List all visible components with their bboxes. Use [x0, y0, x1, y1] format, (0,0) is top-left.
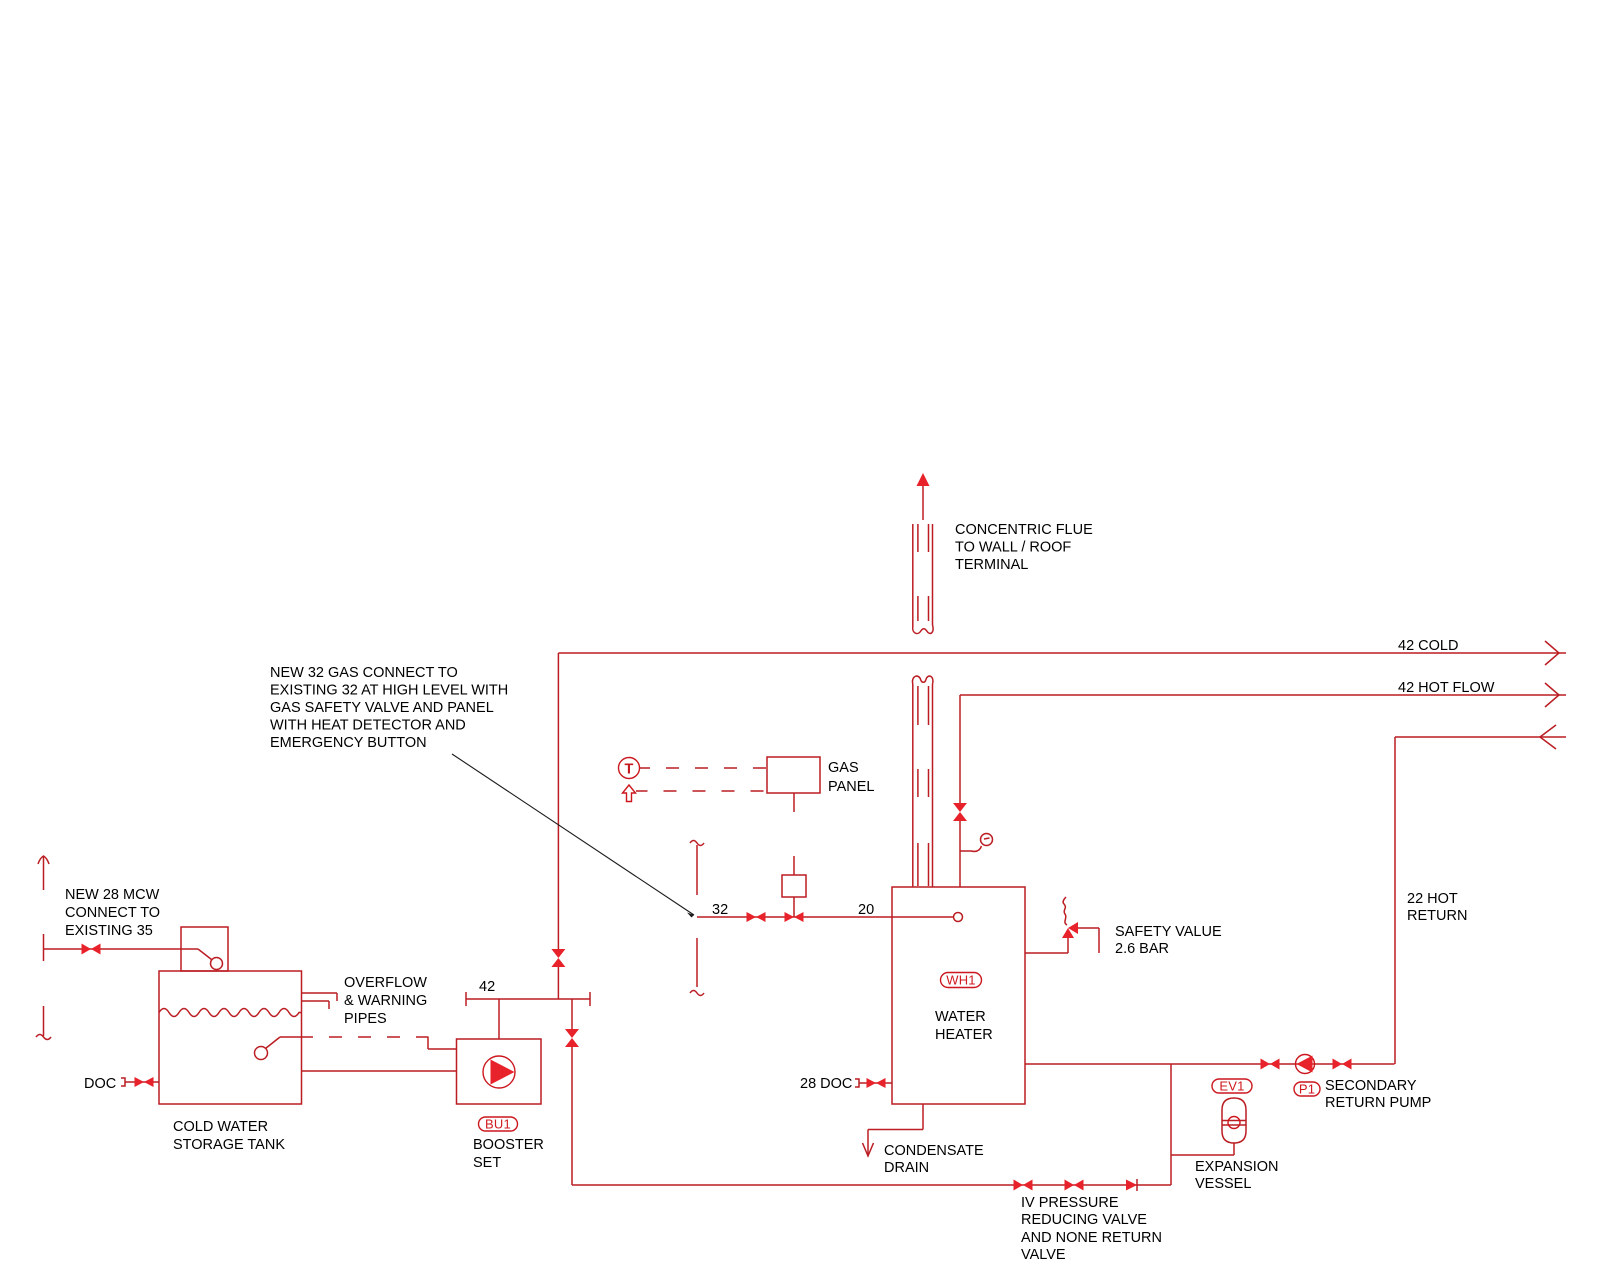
svg-text:32: 32	[712, 902, 728, 918]
svg-text:20: 20	[858, 902, 874, 918]
svg-text:T: T	[624, 762, 633, 778]
svg-text:CONDENSATE: CONDENSATE	[884, 1143, 984, 1159]
svg-text:IV PRESSURE: IV PRESSURE	[1021, 1195, 1119, 1211]
svg-text:HEATER: HEATER	[935, 1027, 993, 1043]
svg-text:SAFETY VALUE: SAFETY VALUE	[1115, 924, 1222, 940]
svg-text:42: 42	[479, 979, 495, 995]
svg-text:TO WALL / ROOF: TO WALL / ROOF	[955, 540, 1071, 556]
svg-text:RETURN: RETURN	[1407, 908, 1467, 924]
svg-text:42 HOT FLOW: 42 HOT FLOW	[1398, 680, 1495, 696]
svg-text:RETURN PUMP: RETURN PUMP	[1325, 1095, 1431, 1111]
svg-text:GAS: GAS	[828, 760, 859, 776]
svg-text:COLD WATER: COLD WATER	[173, 1119, 268, 1135]
svg-text:DOC: DOC	[84, 1076, 116, 1092]
svg-text:EXISTING 32 AT HIGH LEVEL WITH: EXISTING 32 AT HIGH LEVEL WITH	[270, 683, 508, 699]
svg-text:42 COLD: 42 COLD	[1398, 638, 1458, 654]
svg-text:EV1: EV1	[1219, 1079, 1244, 1094]
svg-text:VALVE: VALVE	[1021, 1247, 1066, 1263]
svg-text:& WARNING: & WARNING	[344, 993, 427, 1009]
svg-text:OVERFLOW: OVERFLOW	[344, 975, 427, 991]
svg-text:DRAIN: DRAIN	[884, 1160, 929, 1176]
svg-text:CONCENTRIC FLUE: CONCENTRIC FLUE	[955, 522, 1093, 538]
svg-text:PIPES: PIPES	[344, 1011, 387, 1027]
svg-text:SET: SET	[473, 1155, 501, 1171]
svg-text:2.6 BAR: 2.6 BAR	[1115, 941, 1169, 957]
svg-text:22 HOT: 22 HOT	[1407, 891, 1458, 907]
svg-text:EXISTING 35: EXISTING 35	[65, 923, 153, 939]
svg-text:SECONDARY: SECONDARY	[1325, 1078, 1417, 1094]
svg-text:CONNECT TO: CONNECT TO	[65, 905, 160, 921]
svg-text:REDUCING VALVE: REDUCING VALVE	[1021, 1212, 1147, 1228]
svg-text:TERMINAL: TERMINAL	[955, 557, 1028, 573]
svg-text:WATER: WATER	[935, 1009, 986, 1025]
svg-text:AND NONE RETURN: AND NONE RETURN	[1021, 1230, 1162, 1246]
svg-text:STORAGE TANK: STORAGE TANK	[173, 1137, 285, 1153]
svg-text:P1: P1	[1299, 1082, 1315, 1097]
svg-text:BU1: BU1	[485, 1117, 511, 1132]
svg-text:GAS SAFETY VALVE AND PANEL: GAS SAFETY VALVE AND PANEL	[270, 700, 494, 716]
svg-text:BOOSTER: BOOSTER	[473, 1137, 544, 1153]
svg-text:28 DOC: 28 DOC	[800, 1076, 852, 1092]
svg-text:EXPANSION: EXPANSION	[1195, 1159, 1279, 1175]
svg-text:NEW 28 MCW: NEW 28 MCW	[65, 887, 160, 903]
svg-text:WH1: WH1	[946, 973, 976, 988]
svg-text:WITH HEAT DETECTOR AND: WITH HEAT DETECTOR AND	[270, 718, 466, 734]
svg-text:PANEL: PANEL	[828, 779, 874, 795]
svg-text:EMERGENCY BUTTON: EMERGENCY BUTTON	[270, 735, 427, 751]
svg-text:VESSEL: VESSEL	[1195, 1176, 1251, 1192]
svg-text:NEW 32 GAS CONNECT TO: NEW 32 GAS CONNECT TO	[270, 665, 458, 681]
